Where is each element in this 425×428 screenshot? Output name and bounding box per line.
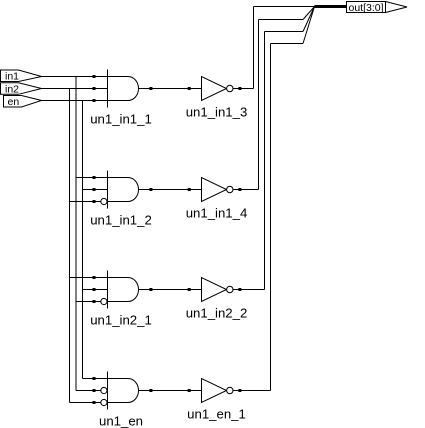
svg-text:un1_in1_1: un1_in1_1 xyxy=(90,111,152,126)
svg-text:in2: in2 xyxy=(5,83,19,95)
svg-text:in1: in1 xyxy=(5,71,19,83)
svg-text:un1_in1_2: un1_in1_2 xyxy=(90,212,152,227)
svg-text:un1_in1_3: un1_in1_3 xyxy=(186,105,248,120)
svg-text:un1_in2_1: un1_in2_1 xyxy=(90,312,152,327)
svg-text:en: en xyxy=(8,96,20,108)
svg-text:un1_en: un1_en xyxy=(99,413,143,428)
svg-text:un1_in2_2: un1_in2_2 xyxy=(186,306,248,321)
svg-text:un1_in1_4: un1_in1_4 xyxy=(186,206,248,221)
svg-text:out[3:0]: out[3:0] xyxy=(349,2,384,14)
svg-text:un1_en_1: un1_en_1 xyxy=(187,407,246,422)
